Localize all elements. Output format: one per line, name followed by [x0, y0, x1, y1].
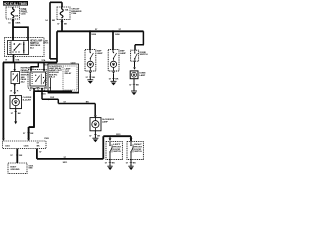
dimmer switch feed wire: [13, 62, 16, 71]
CB2 output wire: [57, 20, 67, 31]
svg-text:LAMP: LAMP: [97, 52, 103, 55]
svg-text:SEE: SEE: [28, 168, 33, 170]
text CB2: [71, 9, 82, 16]
glove box lamp ground: [89, 131, 100, 142]
svg-text:HOT AT ALL TIMES: HOT AT ALL TIMES: [4, 1, 28, 6]
dome lamp ground: [129, 79, 139, 95]
map lamp 1 with switch: [85, 50, 96, 71]
text dome lamp: [139, 73, 146, 77]
wire switch output to main feed: [6, 55, 20, 63]
svg-text:LAMP: LAMP: [139, 74, 145, 77]
connector half triangle on left bus: [2, 139, 5, 141]
lighting control module box: [48, 62, 79, 93]
svg-text:57A: 57A: [42, 59, 46, 62]
bottom feed wire to door switches: [37, 134, 131, 164]
splice S510: [41, 94, 47, 96]
text map lamp 2: [120, 50, 126, 55]
wire branch to headlamp switch B: [13, 27, 28, 40]
wire CB1 output: [8, 19, 21, 41]
courtesy relay box A2: [28, 70, 46, 89]
svg-text:LAMP: LAMP: [102, 121, 108, 124]
map lamp 1 ground: [86, 72, 96, 84]
text left door switch: [113, 144, 121, 153]
text G501: [28, 165, 34, 169]
text dimmer switch: [21, 68, 35, 84]
glove box lamp feed path: [42, 97, 97, 118]
svg-text:GROUND: GROUND: [10, 169, 20, 171]
svg-text:15A: 15A: [65, 9, 69, 12]
main interior lamp feed wire: [3, 59, 57, 66]
text instrument cluster: [23, 97, 32, 101]
headlamp switch box S1: [5, 38, 45, 57]
svg-text:RELAY: RELAY: [65, 72, 72, 75]
cluster output wire with end connector: [11, 109, 21, 125]
ground distribution box G501: [8, 163, 27, 174]
dome lamp connector: [133, 61, 136, 70]
instrument panel dimmer switch: [11, 72, 20, 84]
door switch feed T: [109, 136, 133, 141]
glove box lamp: [90, 118, 101, 131]
wire down from relay to lower connector: [23, 91, 35, 141]
supply riser to CB2: [45, 2, 62, 59]
label row above relay output wire: [30, 88, 51, 90]
courtesy relay box feeds: [30, 62, 46, 71]
right door jamb switch: [127, 142, 143, 160]
svg-text:57A: 57A: [16, 58, 20, 61]
dome lamp switch box: [131, 50, 139, 61]
svg-text:SWITCH: SWITCH: [113, 151, 121, 153]
circuit breaker CB1 (fuse panel): [6, 7, 20, 19]
text dome switch: [140, 52, 148, 56]
text HEADLAMP SWITCH: [30, 40, 43, 50]
svg-text:10A: 10A: [15, 14, 19, 17]
label bar HOT AT ALL TIMES: [3, 1, 28, 6]
svg-text:O/BK: O/BK: [15, 23, 21, 25]
right door switch ground: [126, 160, 136, 171]
circuit breaker CB2: [57, 7, 70, 20]
text glove box lamp: [102, 119, 115, 123]
wire label ticks: [12, 21, 136, 163]
text LCM: [49, 66, 72, 79]
text right door switch: [134, 144, 142, 153]
dimmer output wire: [10, 84, 19, 95]
left door jamb switch: [106, 142, 122, 160]
svg-text:19 R: 19 R: [50, 97, 55, 99]
left bus wire down to connector: [2, 62, 4, 138]
map lamp 2 ground: [109, 72, 119, 86]
text FUSE PANEL: [21, 9, 29, 15]
svg-text:LAMP: LAMP: [120, 52, 126, 55]
instrument cluster illumination lamp: [10, 96, 22, 109]
map lamp 2 with switch: [108, 50, 119, 71]
connector text C501: [43, 40, 49, 44]
wire LCM to relay splice: [34, 90, 72, 92]
relay outputs: [29, 88, 46, 99]
svg-text:SWITCH: SWITCH: [140, 54, 148, 56]
svg-text:SWITCH: SWITCH: [134, 151, 142, 153]
courtesy lamp bus: [57, 31, 144, 62]
map lamp 2 feed wire: [112, 31, 114, 49]
text map lamp 1: [97, 50, 103, 55]
splice S206: [89, 29, 122, 36]
wire strip to ground box: [10, 149, 22, 163]
svg-text:ILLUM: ILLUM: [23, 100, 31, 102]
map lamp 1 feed wire: [89, 31, 91, 49]
dome lamp: [130, 71, 138, 79]
inline connector strip C501: [3, 138, 50, 149]
left door switch ground: [105, 160, 115, 171]
